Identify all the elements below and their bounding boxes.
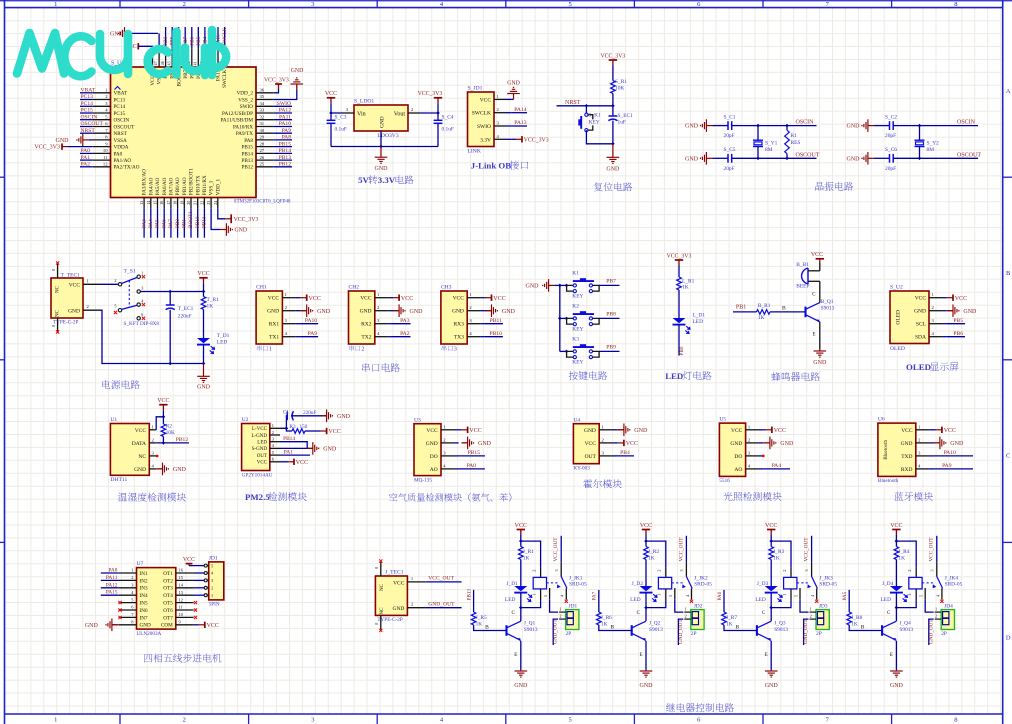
svg-text:16: 16 [159,201,164,205]
svg-text:20: 20 [186,201,191,205]
mcu right pins [256,92,274,94]
wire+power VCC CH2 [392,297,395,299]
ground GND C1 [321,415,327,417]
svg-text:GND: GND [197,384,211,390]
svg-text:0: 0 [374,567,379,569]
svg-text:VCC: VCC [426,428,438,434]
svg-text:VCC: VCC [901,428,913,434]
svg-text:S_K1: S_K1 [588,112,601,118]
wire emitter to gnd [645,641,647,670]
pin 4 of CH3 [467,336,480,338]
power VCC_3V3 at mcu pin VDDA [61,143,63,149]
svg-text:6: 6 [141,312,143,317]
power VCC_3V3 at mcu VDD_2 [278,84,280,90]
wire+power VCC pin6 [280,461,288,463]
svg-text:13: 13 [139,201,144,205]
svg-text:S_C6: S_C6 [885,147,897,153]
pin 3 of MQ-135 [441,455,454,457]
wire contact5 to JD pin1 [550,600,559,612]
svg-text:33: 33 [260,108,265,113]
svg-text:SWIO: SWIO [277,101,291,107]
resistor J_R8 1K base [848,590,850,612]
wire+power VCC MQ-135 [459,429,462,431]
svg-text:1: 1 [531,594,536,596]
svg-text:1K: 1K [648,555,655,561]
pin 1 of KY-003 [599,429,612,431]
wire coil to collector node [915,589,917,601]
svg-text:VDD_1: VDD_1 [215,178,221,195]
connector JD3 2P body [816,610,829,630]
wire net PA8 [101,572,119,574]
svg-text:T_EC1: T_EC1 [178,306,194,312]
svg-text:PA2/TX/AO: PA2/TX/AO [114,165,140,171]
mcu left pins [93,92,111,94]
pin 1 of S_U2 [929,297,942,299]
resistor J_R1 1K [520,541,522,546]
relay coil J_JK4 [915,568,917,578]
resistor J_R2 1K [645,541,647,546]
svg-text:GND: GND [606,166,620,172]
svg-text:GND: GND [847,124,861,130]
svg-text:LED: LED [665,371,683,381]
connector JD1 2P body [566,610,579,630]
svg-text:U4: U4 [573,417,580,423]
svg-text:DO: DO [430,454,438,460]
svg-text:E: E [514,653,517,658]
wire PA14 [512,112,527,114]
svg-text:OT7: OT7 [163,615,173,621]
svg-text:PA3: PA3 [141,219,147,228]
svg-text:3: 3 [311,1,314,8]
svg-text:PB9: PB9 [163,36,169,45]
svg-text:PA6: PA6 [717,591,723,600]
svg-text:PA5/AO: PA5/AO [155,177,161,195]
svg-text:S_Y2: S_Y2 [927,141,940,147]
svg-text:LED: LED [693,319,704,325]
pin 2 of CH1 [282,310,295,312]
svg-text:VCC: VCC [585,441,597,447]
svg-text:220uF: 220uF [303,410,316,416]
svg-text:L_R1: L_R1 [682,278,695,284]
svg-text:KEY: KEY [572,359,583,365]
wire net PA3 [393,323,411,325]
power VCC relay unit 1 [520,530,522,536]
wire net PA11 [101,579,119,581]
power VCC_3V3 flag [437,98,439,104]
svg-text:41: 41 [193,61,198,65]
svg-text:PB10/TX: PB10/TX [195,175,201,195]
ground GND relay unit 3 [770,670,772,672]
svg-text:0: 0 [51,269,56,271]
svg-text:OSCIN: OSCIN [796,120,815,126]
power VCC_3V3 at mcu VDD_1 [230,214,232,223]
pin 5 of JD1 [204,564,207,567]
svg-text:PB5: PB5 [953,318,963,324]
T_TEC1 bottom stub pin 0 [57,318,59,331]
svg-text:1: 1 [272,423,274,428]
svg-text:GND_OUT: GND_OUT [803,619,809,644]
mcu right net labels [274,105,292,107]
svg-text:OT4: OT4 [163,593,173,599]
pin 2 wire GND [83,309,101,311]
resistor R3 150 [292,429,305,434]
svg-text:8M: 8M [765,147,773,153]
svg-text:OLED: OLED [896,310,902,325]
svg-text:VCC: VCC [480,97,492,103]
pin 4 of DHT11 [149,468,156,470]
svg-text:PA15: PA15 [106,590,118,596]
connector JD1 5PIN body [209,562,224,600]
power VCC flag DHT11 [162,405,164,411]
svg-text:J_TEC1: J_TEC1 [385,570,404,576]
wire GND_OUT to JD pin2 [804,619,809,645]
svg-text:PA0: PA0 [81,148,91,154]
no-connect OT7 [194,616,197,619]
resistor B_R1 1K [757,310,771,315]
svg-text:JD2: JD2 [694,603,703,609]
svg-text:VSS_1: VSS_1 [209,180,215,195]
svg-text:35: 35 [260,94,265,99]
svg-text:J_R8: J_R8 [851,615,862,621]
svg-text:AO: AO [734,467,742,473]
svg-text:S_U2: S_U2 [890,285,903,291]
svg-text:T_TEC1: T_TEC1 [61,272,81,278]
wire key K2 to net PB8 [599,317,619,319]
svg-text:S-GND: S-GND [252,447,268,452]
svg-text:J_R5: J_R5 [476,615,487,621]
svg-text:DHT11: DHT11 [110,477,127,483]
svg-text:GP2Y1014AU: GP2Y1014AU [242,472,273,478]
pin 11 of U7 [176,609,194,611]
wire+ground GND KY-003 [617,429,624,431]
pin 16 of U7 [176,572,194,574]
resistor J_R6 1K base [598,590,600,612]
ground GND above J-Link [513,94,515,100]
svg-text:PB0: PB0 [679,346,685,355]
svg-text:GND: GND [890,683,904,689]
svg-text:VDDA: VDDA [114,145,129,151]
svg-text:R3: R3 [290,424,296,430]
svg-text:2: 2 [907,570,912,572]
pin 2 of GP2Y1014AU [270,434,280,436]
svg-text:1: 1 [269,346,272,353]
power GND at mcu pin VSSA [83,139,89,141]
relay actuator dashed [922,582,934,584]
svg-text:PB11: PB11 [202,216,208,228]
relay actuator dashed [672,582,684,584]
ground GND relay unit 4 [895,670,897,672]
svg-text:GND: GND [950,441,964,447]
svg-text:30: 30 [260,128,265,133]
wire+power VCC Bluetooth [934,429,936,431]
power VCC relay unit 3 [770,530,772,536]
svg-text:SWCLK: SWCLK [222,69,228,87]
svg-text:VCC_3V3: VCC_3V3 [667,253,692,259]
svg-text:LED: LED [505,597,516,603]
wire coil to collector node [665,589,667,601]
svg-text:GND: GND [85,623,99,629]
svg-text:GND: GND [584,428,596,434]
svg-text:LINK: LINK [468,148,481,154]
svg-text:IN1: IN1 [140,571,148,577]
svg-text:PB6: PB6 [953,331,963,337]
MCUclub logo [17,30,226,76]
svg-text:DO: DO [734,454,742,460]
svg-text:45: 45 [166,61,171,65]
wire Vout to VCC_3V3 [420,112,438,114]
ground GND power circuit [203,364,205,377]
wire emitter to gnd [895,641,897,670]
svg-text:1uF: 1uF [618,120,626,126]
svg-text:DATA: DATA [132,441,146,447]
wire OSCOUT row [732,157,817,159]
connector JD4 2P body [941,610,954,630]
svg-text:OLED: OLED [906,362,931,372]
svg-text:L-GND: L-GND [251,434,267,439]
connector CH3 body [441,291,467,344]
power VCC buzzer [819,262,821,271]
svg-text:2P: 2P [941,631,947,637]
wire GND_OUT to JD pin2 [929,619,934,645]
svg-text:OUT: OUT [585,454,597,460]
svg-text:GND: GND [478,441,492,447]
svg-text:VCC_3V3: VCC_3V3 [234,217,259,223]
relay actuator dashed [797,582,809,584]
svg-text:B: B [485,625,489,631]
led J_D2 [640,586,653,591]
resistor R1 RES [786,126,788,131]
svg-text:VCC: VCC [157,398,169,404]
svg-text:GND: GND [410,309,424,315]
pin 2 of S_U2 [929,310,942,312]
svg-text:10K: 10K [615,85,624,91]
J_TEC1 bottom stub [380,615,382,629]
svg-text:KEY: KEY [572,326,583,332]
relay coil J_JK2 [665,568,667,578]
wire coil branch [646,541,666,568]
svg-text:0.1uF: 0.1uF [442,126,454,132]
svg-text:10K: 10K [166,430,175,436]
svg-text:J_JK3: J_JK3 [819,575,833,581]
wire net PA10 [300,323,318,325]
svg-text:S9013: S9013 [524,627,538,633]
svg-text:1: 1 [559,607,561,612]
driver U7 ULN2003A body [137,568,176,630]
pin 4 of S_U2 [929,336,942,338]
svg-text:GND: GND [267,309,279,315]
wire J_R4 to led [895,560,897,587]
svg-text:GND: GND [526,284,540,290]
svg-text:PA9: PA9 [308,331,318,337]
svg-text:OSCOUT: OSCOUT [957,152,981,158]
svg-text:OSCOUT: OSCOUT [796,152,820,158]
wire PA13 [512,125,527,127]
svg-text:3: 3 [141,285,143,290]
pin 2 of U7 [119,579,137,581]
svg-text:IN6: IN6 [140,608,148,614]
svg-text:PA8: PA8 [108,568,117,574]
sensor U3 MQ-135 body [414,424,441,476]
net NRST wire [557,105,613,107]
svg-text:B: B [610,625,614,631]
ground GND of LDO [380,147,382,158]
svg-text:GND: GND [173,467,187,473]
svg-text:10: 10 [103,148,108,153]
wire led to collector node [520,593,522,621]
svg-text:PA10/RX: PA10/RX [233,124,253,130]
svg-text:32: 32 [260,114,265,119]
svg-text:S_C1: S_C1 [724,114,736,120]
svg-text:NRST: NRST [81,128,96,134]
wire emitter to gnd [819,322,821,350]
wire+power VCC CH1 [299,297,302,299]
svg-text:23: 23 [206,201,211,205]
title stepper motor [144,654,152,662]
svg-text:VCC: VCC [360,296,372,302]
no-connect OT5 [194,601,197,604]
svg-text:1K: 1K [523,555,530,561]
svg-text:VCC: VCC [890,523,902,529]
relay coil J_JK3 [790,568,792,578]
wire coil branch [896,541,916,568]
svg-text:Bluetooth: Bluetooth [884,439,889,459]
svg-text:C: C [1006,452,1010,459]
connector S_JD1 body [468,92,495,147]
svg-text:OSCOUT: OSCOUT [81,121,104,127]
key bus vertical wire [559,285,561,351]
svg-text:VCC_OUT: VCC_OUT [929,537,935,562]
svg-text:GND: GND [514,683,528,689]
wire to LED [203,310,205,339]
wire OT2 to JD1 [194,579,205,581]
svg-text:BOOT1: BOOT1 [188,211,194,228]
svg-text:VCC: VCC [296,460,308,466]
svg-text:TX3: TX3 [454,335,464,341]
svg-text:PB0: PB0 [175,219,181,228]
relay actuator dashed [547,582,559,584]
svg-text:PA7: PA7 [592,591,598,600]
svg-text:2: 2 [211,586,213,591]
svg-text:SWCLK: SWCLK [472,111,491,117]
power VCC relay unit 2 [645,530,647,536]
svg-text:PA9: PA9 [942,463,952,469]
svg-text:VCC: VCC [268,296,280,302]
wire contact5 to JD pin1 [675,600,684,612]
connector CH1 body [256,291,282,344]
svg-text:2P: 2P [816,631,822,637]
pin 3 of KY-003 [599,455,612,457]
net PB1 wire [733,311,757,313]
title buzzer circuit [771,372,780,381]
wire to led [678,290,680,318]
svg-text:PB13: PB13 [279,155,292,161]
svg-text:PC14: PC14 [114,104,126,110]
svg-text:GND: GND [634,428,648,434]
wire GND_OUT to JD pin2 [553,619,558,645]
svg-text:SRD-05: SRD-05 [819,582,837,588]
svg-text:34: 34 [260,101,265,106]
svg-text:17: 17 [166,201,171,205]
svg-text:12: 12 [103,162,108,167]
wire+ground GND DHT11 [156,468,162,470]
led J_D3 [765,586,778,591]
svg-text:2: 2 [361,346,364,353]
power GND at mcu VSS_1 [220,229,226,231]
svg-text:SRD-05: SRD-05 [569,582,587,588]
svg-text:IN7: IN7 [140,615,148,621]
svg-text:3: 3 [554,569,559,571]
svg-text:GND: GND [140,623,151,629]
capacitor S_C4 [437,113,439,120]
pin 2 of KY-003 [599,442,612,444]
pin 5 of GP2Y1014AU [270,454,280,456]
resistor J_R4 1K [895,541,897,546]
transistor J_Q1 S9013 [505,625,507,636]
pin 1 of U7 [119,572,137,574]
svg-text:J_JK1: J_JK1 [569,575,583,581]
pin 2 of 5516 [746,442,759,444]
svg-text:PA12: PA12 [106,582,118,588]
svg-text:SWIO: SWIO [477,124,491,130]
wire to key [585,106,587,113]
wire 3.3V to VCC_3V3 [512,138,516,140]
svg-text:J_R3: J_R3 [773,549,784,555]
wire coil branch [521,541,541,568]
svg-text:2: 2 [131,575,133,580]
svg-text:GND: GND [507,81,520,87]
svg-text:PB2/BOOT1: PB2/BOOT1 [189,168,195,196]
pin 6 of GP2Y1014AU [270,461,280,463]
svg-text:B_Q1: B_Q1 [821,299,834,305]
svg-text:AO: AO [430,467,438,473]
svg-text:12: 12 [179,597,183,602]
svg-text:PB1: PB1 [736,304,746,310]
wire coil to collector node [790,589,792,601]
capacitor S_C2 20pF [874,125,890,127]
svg-text:1: 1 [935,607,937,612]
sensor U6 Bluetooth body [878,423,916,476]
svg-text:PC14: PC14 [81,101,94,107]
pin 5 of U7 [119,602,137,604]
pin 4 of S_JD1 [494,138,506,140]
svg-text:3.3V: 3.3V [480,137,491,143]
svg-text:VCC: VCC [309,296,321,302]
svg-text:VCC: VCC [515,523,527,529]
pin 3 of JD1 [204,579,207,582]
crystal S_Y1 8M [757,126,759,141]
svg-text:J_Q1: J_Q1 [524,621,536,627]
svg-text:VCC: VCC [69,282,81,288]
title hall module [583,479,592,488]
svg-text:2: 2 [114,278,116,283]
wire VSS_2 to GND [274,90,297,100]
svg-text:PA5: PA5 [155,219,161,228]
svg-text:2: 2 [657,570,662,572]
svg-text:1: 1 [54,717,57,724]
svg-text:OT1: OT1 [163,571,173,577]
svg-text:GND: GND [765,683,779,689]
ground GND relay unit 2 [645,670,647,672]
svg-text:VCC: VCC [640,523,652,529]
svg-text:5: 5 [568,717,571,724]
wire+ground GND CH2 [392,310,395,312]
svg-text:22: 22 [199,201,204,205]
svg-text:2: 2 [810,614,812,619]
power VCC_3V3 flag at J-Link [516,138,522,140]
svg-text:8: 8 [954,1,957,8]
wire VDD_1 to VCC_3V3 [218,208,225,219]
svg-text:PB1/AO: PB1/AO [182,177,188,195]
